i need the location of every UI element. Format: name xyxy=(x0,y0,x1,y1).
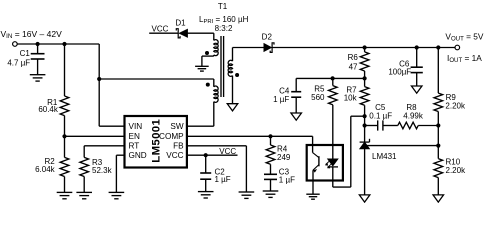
wire to primary xyxy=(99,78,214,80)
T1 primary winding xyxy=(213,79,215,87)
ground C6 xyxy=(411,86,422,93)
svg-text:249: 249 xyxy=(277,153,291,162)
ground R10 xyxy=(433,195,444,202)
svg-text:560: 560 xyxy=(311,93,325,102)
resistor R2 xyxy=(64,136,66,157)
T1 bias phasing dot xyxy=(205,51,209,55)
wire SW xyxy=(187,125,214,127)
junction REF/divider xyxy=(436,144,440,148)
capacitor C4 xyxy=(295,78,297,91)
svg-text:2.20k: 2.20k xyxy=(446,166,467,175)
svg-text:1 µF: 1 µF xyxy=(279,175,295,184)
svg-text:D1: D1 xyxy=(175,18,186,27)
T1 secondary winding xyxy=(232,48,234,62)
svg-text:47: 47 xyxy=(349,62,358,71)
svg-text:LM5001: LM5001 xyxy=(150,119,162,163)
junction opto cathode tap xyxy=(363,114,367,118)
T1 secondary phasing dot xyxy=(235,73,239,77)
svg-text:1 µF: 1 µF xyxy=(215,175,231,184)
resistor R1 xyxy=(64,44,66,96)
svg-text:COMP: COMP xyxy=(159,132,184,141)
capacitor C2 xyxy=(205,155,207,173)
svg-text:C1: C1 xyxy=(20,49,31,58)
svg-text:T1: T1 xyxy=(218,2,228,11)
svg-text:0.1 µF: 0.1 µF xyxy=(369,111,392,120)
U2 phototransistor xyxy=(312,145,314,153)
svg-text:1 µF: 1 µF xyxy=(273,95,289,104)
capacitor C1 xyxy=(37,44,39,54)
wire divider mid xyxy=(437,126,439,146)
wire GND pin xyxy=(116,154,124,156)
junction R8/divider xyxy=(436,123,440,127)
svg-text:D2: D2 xyxy=(262,33,273,42)
resistor R10 xyxy=(437,146,439,159)
resistor R6 xyxy=(364,48,366,52)
svg-text:8:3:2: 8:3:2 xyxy=(215,24,233,33)
svg-text:R4: R4 xyxy=(277,144,288,153)
node VOUT terminal xyxy=(455,45,460,50)
ground C3 xyxy=(263,190,279,192)
resistor R3 xyxy=(83,146,85,158)
svg-text:6.04k: 6.04k xyxy=(35,165,56,174)
wire R8 to divider xyxy=(418,125,438,127)
resistor R5 xyxy=(332,78,334,85)
svg-text:SW: SW xyxy=(170,122,183,131)
capacitor C3 xyxy=(264,173,277,175)
svg-text:GND: GND xyxy=(129,151,147,160)
svg-text:RT: RT xyxy=(129,142,140,151)
wire C5 left xyxy=(365,125,378,127)
wire bias to ground xyxy=(213,55,215,56)
wire VCC pin xyxy=(187,154,238,156)
svg-text:EN: EN xyxy=(129,132,140,141)
wire VCC stub xyxy=(149,32,178,34)
ground C1 xyxy=(30,74,46,76)
ground R3 xyxy=(76,191,92,193)
wire FB xyxy=(187,145,247,147)
resistor R9 xyxy=(437,48,439,94)
op-amp U1 LM5001 body xyxy=(125,116,187,168)
svg-text:100µF: 100µF xyxy=(388,68,411,77)
ground bias winding xyxy=(195,65,209,67)
T1 bias winding xyxy=(213,33,215,40)
capacitor C5 xyxy=(377,120,379,130)
ground LM431 xyxy=(359,195,370,202)
svg-text:FB: FB xyxy=(173,142,184,151)
junction R5 tap xyxy=(331,76,335,80)
junction VIN/C1 xyxy=(36,42,40,46)
svg-text:60.4k: 60.4k xyxy=(38,105,59,114)
junction VOUT/R6 xyxy=(363,45,367,49)
resistor R8 xyxy=(398,122,418,129)
svg-text:LM431: LM431 xyxy=(372,152,397,161)
svg-text:52.3k: 52.3k xyxy=(92,166,113,175)
diode D1 xyxy=(179,29,187,37)
U2 light arrows xyxy=(326,161,332,168)
svg-text:VCC: VCC xyxy=(152,25,169,34)
svg-text:4.7 µF: 4.7 µF xyxy=(7,59,30,68)
junction VIN/R1 xyxy=(62,42,66,46)
optocoupler U2 body xyxy=(307,145,343,181)
resistor R4 xyxy=(270,136,272,145)
wire VIN rail xyxy=(17,43,99,45)
svg-text:VIN: VIN xyxy=(129,122,143,131)
T1 primary phasing dot xyxy=(206,83,210,87)
junction VOUT/C6 xyxy=(415,45,419,49)
junction VCC/C2 xyxy=(204,153,208,157)
svg-text:VCC: VCC xyxy=(166,151,183,160)
svg-text:2.20k: 2.20k xyxy=(445,102,466,111)
wire LED cathode to LM431 xyxy=(333,186,351,188)
wire LM431 ref xyxy=(367,145,438,147)
ground secondary xyxy=(227,104,238,111)
capacitor C6 xyxy=(416,48,418,68)
svg-text:4.99k: 4.99k xyxy=(403,111,424,120)
wire D1 to bias winding xyxy=(188,32,214,34)
ground C2 xyxy=(198,191,214,193)
junction VOUT/R9 xyxy=(436,45,440,49)
wire RT xyxy=(84,145,124,147)
svg-text:VCC: VCC xyxy=(219,147,236,156)
U2 LED xyxy=(332,145,334,159)
wire VIN riser xyxy=(98,44,100,126)
ground R2 xyxy=(57,191,73,193)
shunt regulator LM431 xyxy=(360,141,370,143)
svg-text:10k: 10k xyxy=(344,94,358,103)
wire EN xyxy=(65,135,125,137)
junction VIN riser / primary xyxy=(97,77,101,81)
resistor R7 xyxy=(364,78,366,86)
wire VOUT rail xyxy=(233,47,264,49)
junction R6/R7/Rwire xyxy=(363,76,367,80)
wire C5 to R8 xyxy=(383,125,398,127)
wire secondary to ground xyxy=(232,76,234,104)
junction COMP/R4 xyxy=(268,134,272,138)
junction R1/R2/EN xyxy=(62,134,66,138)
node VIN input terminal xyxy=(13,42,18,47)
ground FB xyxy=(239,191,255,193)
ground C4 xyxy=(291,113,302,120)
wire COMP xyxy=(187,135,313,137)
svg-text:R6: R6 xyxy=(348,53,359,62)
T1 core xyxy=(220,36,222,97)
diode D2 xyxy=(264,44,272,52)
junction C5 tap xyxy=(363,123,367,127)
ground opto emitter xyxy=(306,193,319,195)
ground GND pin xyxy=(109,191,125,193)
wire feedback top xyxy=(296,77,364,79)
wire D2 to VOUT xyxy=(272,47,455,49)
